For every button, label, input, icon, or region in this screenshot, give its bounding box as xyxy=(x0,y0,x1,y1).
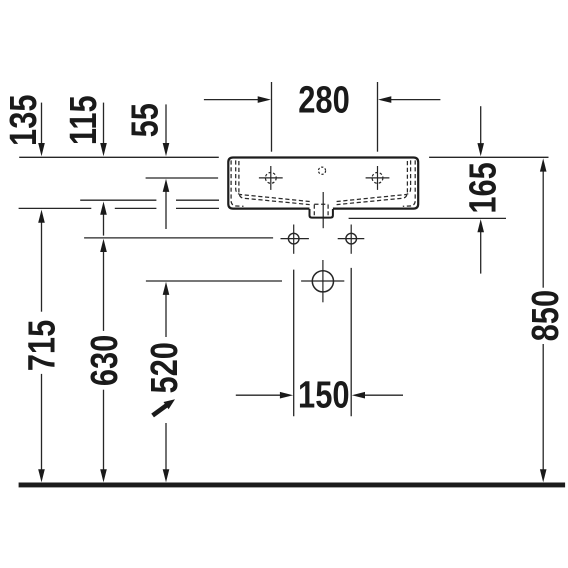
drain outlet box xyxy=(310,209,333,218)
arrow 520 down at floor xyxy=(163,469,170,482)
wire 55-level line xyxy=(146,177,219,179)
dimension 55 top line xyxy=(165,104,167,144)
drain hole hidden right xyxy=(327,205,329,216)
centerline xyxy=(322,192,324,228)
dimension 135/715 shared tail + 715 line xyxy=(41,222,43,312)
basin interior hidden edges (dashed) xyxy=(231,160,415,215)
drain hole hidden left xyxy=(313,205,315,216)
tap hole right xyxy=(366,166,390,190)
basin floor lower right xyxy=(337,161,408,205)
arrow 150 left pointing right xyxy=(280,392,293,399)
arrow 150 right pointing left xyxy=(352,392,365,399)
svg-text:520: 520 xyxy=(144,342,186,394)
svg-text:715: 715 xyxy=(22,320,64,372)
dimension 115 lower tail xyxy=(103,214,105,236)
drain hidden horizontal xyxy=(314,203,328,205)
wire 150 extension verticals xyxy=(293,270,295,417)
arrow 55 up at 55-line xyxy=(163,179,170,192)
tap hole left xyxy=(259,166,283,190)
wire 630-level line xyxy=(84,237,273,239)
dimension 280 lines xyxy=(204,99,259,101)
dimension 850 line xyxy=(542,170,544,287)
wire 135-level line xyxy=(19,207,92,209)
mounting hole left xyxy=(281,225,309,254)
svg-text:630: 630 xyxy=(84,335,126,387)
arrow 630 up at 630-line xyxy=(100,239,107,252)
siphon outlet xyxy=(301,260,344,302)
basin right wall outer xyxy=(403,160,415,206)
arrow 280 right pointing left xyxy=(378,96,391,103)
arrow 630 down at floor xyxy=(100,469,107,482)
arrow 135 up at 135-line xyxy=(38,210,45,223)
svg-text:135: 135 xyxy=(3,94,45,146)
wire 115-level line xyxy=(80,199,156,201)
basin floor lower left xyxy=(239,161,310,205)
wire 280 extension verticals xyxy=(271,82,273,152)
wire 520-level line xyxy=(146,280,282,282)
arrow 850 down at floor xyxy=(540,469,547,482)
dimension 150 lines xyxy=(236,394,280,396)
svg-text:55: 55 xyxy=(124,103,166,137)
basin right wall inner xyxy=(337,160,411,201)
arrow 115 up at 115-line xyxy=(100,202,107,215)
dimension 165 top line xyxy=(480,106,482,143)
wire 165 lower line (drain bottom extension) xyxy=(349,217,506,219)
svg-text:150: 150 xyxy=(298,375,350,417)
dimension 165 lower tail xyxy=(480,231,482,274)
arrow 55 down at rim xyxy=(163,143,170,156)
arrow 165 up at drain line xyxy=(477,219,484,232)
arrow 135 down at rim xyxy=(38,143,45,156)
arrow 165 down at rim xyxy=(477,143,484,156)
arrow 715 down at floor xyxy=(38,469,45,482)
arrowheads xyxy=(38,96,546,482)
dimension 630 line xyxy=(103,251,105,331)
arrow 280 left pointing right xyxy=(258,96,271,103)
dimension 520 line xyxy=(165,294,167,337)
svg-text:280: 280 xyxy=(298,80,350,122)
arrow 520 up at 520-line xyxy=(163,282,170,295)
svg-text:850: 850 xyxy=(525,290,567,342)
arrow 850 up at rim xyxy=(540,158,547,171)
dimension 55 lower tail xyxy=(165,191,167,229)
arrow 115 down at rim xyxy=(100,143,107,156)
dimension 115 top line xyxy=(103,103,105,144)
wire rim extension right xyxy=(429,156,548,158)
basin left wall inner xyxy=(236,160,310,201)
wire rim extension left xyxy=(19,156,219,158)
overflow hole xyxy=(318,167,325,174)
diagonal hint arrow at 520 xyxy=(153,399,175,415)
svg-text:165: 165 xyxy=(462,162,504,214)
svg-text:115: 115 xyxy=(63,95,105,145)
basin left wall outer xyxy=(231,160,243,206)
washbasin outline xyxy=(228,158,418,209)
floor line xyxy=(19,483,566,488)
mounting hole right xyxy=(338,225,365,254)
dimension 135 top line xyxy=(41,103,43,144)
